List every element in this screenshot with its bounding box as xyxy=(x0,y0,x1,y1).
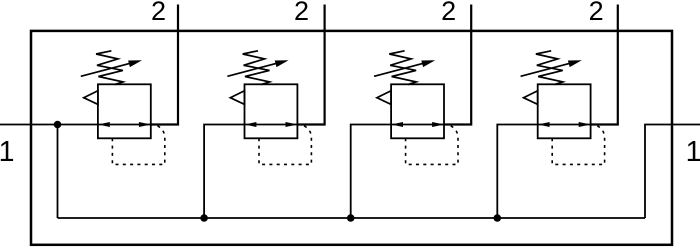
regulator LR3 adjustment arrowhead xyxy=(421,60,435,67)
wire: port 1 supply line left entry xyxy=(0,124,98,126)
regulator LR3 body box xyxy=(391,84,444,138)
regulator LR4 adjustment spring xyxy=(536,51,563,85)
regulator LR2 left flow arrowhead xyxy=(245,122,257,127)
wire: regulator LR1 outlet to port 2 xyxy=(151,5,178,125)
svg-text:1: 1 xyxy=(686,136,700,168)
regulator LR4 adjustment arrowhead xyxy=(568,60,582,67)
regulator LR3 flow path through box xyxy=(391,124,444,126)
wire: supply drop from junction to bottom manifold xyxy=(57,125,59,219)
regulator LR3 right flow arrowhead xyxy=(432,122,444,127)
regulator LR3 left flow arrowhead xyxy=(392,122,404,127)
regulator LR1 adjustment arrow shaft xyxy=(81,63,131,76)
wire: riser to regulator LR2 inlet xyxy=(204,125,244,219)
regulator LR3 relief vent triangle xyxy=(377,91,391,105)
regulator LR4 adjustment arrow shaft xyxy=(521,63,571,76)
regulator LR2 relief vent triangle xyxy=(230,91,244,105)
regulator LR1 left flow arrowhead xyxy=(98,122,110,127)
wire: right port 1 supply entry and drop to manifold xyxy=(645,125,700,219)
node: manifold junction dot 2 xyxy=(347,214,355,222)
svg-text:2: 2 xyxy=(441,0,456,26)
node: manifold junction dot 3 xyxy=(494,214,502,222)
regulator LR2 adjustment spring xyxy=(243,51,270,85)
manifold enclosure outline xyxy=(31,31,672,245)
regulator LR3 adjustment spring xyxy=(389,51,416,85)
wire: bottom supply manifold line xyxy=(58,217,646,219)
regulator LR1 body box xyxy=(98,84,151,138)
regulator LR1 adjustment spring xyxy=(96,51,123,85)
regulator LR1 right flow arrowhead xyxy=(139,122,151,127)
wire: riser to regulator LR3 inlet xyxy=(351,125,391,219)
regulator LR4 right flow arrowhead xyxy=(579,122,591,127)
regulator LR2 right flow arrowhead xyxy=(286,122,298,127)
regulator LR2 flow path through box xyxy=(245,124,298,126)
regulator LR4 left flow arrowhead xyxy=(538,122,550,127)
wire: regulator LR3 outlet to port 2 xyxy=(444,5,471,125)
wire: regulator LR2 outlet to port 2 xyxy=(297,5,324,125)
node: manifold junction dot 1 xyxy=(200,214,208,222)
regulator LR3 adjustment arrow shaft xyxy=(374,63,424,76)
regulator LR3 pilot feedback dashed line xyxy=(406,125,458,165)
wire: regulator LR4 outlet to port 2 xyxy=(591,5,618,125)
regulator LR2 pilot feedback dashed line xyxy=(259,125,311,165)
regulator LR1 flow path through box xyxy=(98,124,151,126)
regulator LR2 adjustment arrowhead xyxy=(275,60,289,67)
regulator LR4 pilot feedback dashed line xyxy=(552,125,604,165)
regulator LR2 body box xyxy=(245,84,298,138)
regulator LR1 adjustment arrowhead xyxy=(128,60,142,67)
svg-text:2: 2 xyxy=(294,0,309,26)
regulator LR4 flow path through box xyxy=(538,124,591,126)
regulator LR1 relief vent triangle xyxy=(84,91,98,105)
regulator LR2 adjustment arrow shaft xyxy=(227,63,277,76)
wire: riser to regulator LR4 inlet xyxy=(497,125,537,219)
svg-text:2: 2 xyxy=(589,0,604,26)
node: supply junction dot xyxy=(54,121,62,129)
svg-text:1: 1 xyxy=(0,136,14,168)
svg-text:2: 2 xyxy=(151,0,166,26)
regulator LR1 pilot feedback dashed line xyxy=(112,125,164,165)
regulator LR4 body box xyxy=(538,84,591,138)
regulator LR4 relief vent triangle xyxy=(524,91,538,105)
